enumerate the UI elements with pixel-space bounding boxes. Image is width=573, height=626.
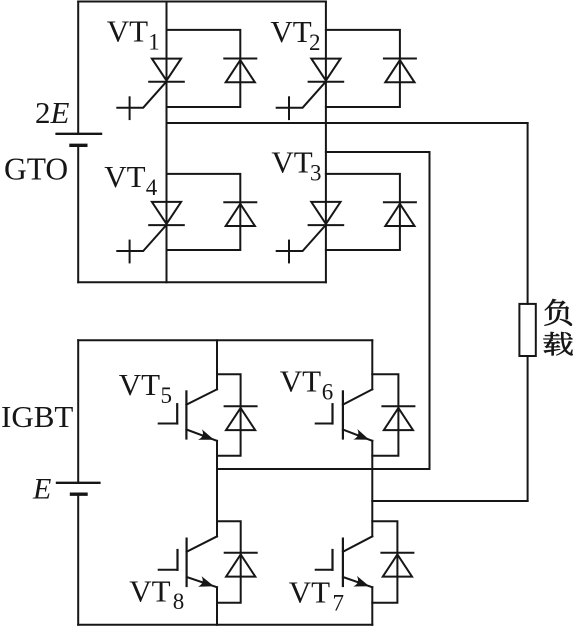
svg-text:1: 1: [148, 30, 160, 55]
wire diode loop around VT3: [326, 174, 400, 250]
wire top rail of IGBT bridge: [78, 339, 372, 341]
wire right leg segments of IGBT bridge: [371, 340, 373, 625]
svg-text:4: 4: [146, 175, 158, 200]
svg-text:2E: 2E: [35, 95, 70, 130]
diode of VT2 cell: [384, 59, 416, 83]
wire diode loop around VT8: [217, 521, 241, 603]
svg-text:VT: VT: [104, 159, 145, 194]
svg-text:IGBT: IGBT: [1, 399, 73, 434]
wire left branch upper (to battery E): [77, 340, 79, 483]
wire diode loop around VT1: [167, 30, 241, 107]
label 2E: [35, 95, 70, 130]
wire left leg segments of IGBT bridge: [216, 340, 218, 625]
label VT7: [289, 575, 344, 616]
svg-text:VT: VT: [129, 573, 170, 608]
diode of VT3 cell: [384, 202, 416, 226]
svg-text:VT: VT: [119, 367, 160, 402]
label GTO: [4, 152, 68, 187]
svg-text:3: 3: [310, 160, 322, 185]
wire top rail of GTO bridge: [78, 1, 326, 3]
thyristor VT2: [277, 59, 344, 120]
label VT6: [280, 364, 334, 405]
wire diode loop around VT5: [217, 374, 241, 456]
wire diode loop around VT6: [372, 374, 398, 456]
svg-text:7: 7: [333, 591, 345, 616]
diode of VT8 cell: [225, 553, 257, 577]
svg-text:VT: VT: [289, 575, 330, 610]
wire node A2 rail (to B1 link): [217, 468, 430, 470]
IGBT VT7: [316, 536, 373, 587]
battery E: [57, 483, 99, 494]
label VT8: [129, 573, 184, 614]
label VT1: [107, 14, 160, 55]
label VT5: [119, 367, 172, 408]
label VT4: [104, 159, 158, 200]
wire right leg of GTO bridge (VT2/VT3): [325, 2, 327, 283]
svg-text:GTO: GTO: [4, 152, 68, 187]
thyristor VT3: [277, 202, 344, 263]
wire node B2 rail (to load bottom): [372, 356, 527, 501]
wire left branch upper (to battery 2E): [77, 2, 79, 134]
load resistor (fuzai): [519, 304, 535, 356]
wire left leg of GTO bridge (VT1/VT4): [166, 2, 168, 283]
IGBT VT8: [159, 536, 217, 587]
wire diode loop around VT2: [326, 30, 400, 107]
svg-text:VT: VT: [271, 145, 312, 180]
label fuzai (load) text: [543, 299, 572, 355]
wire diode loop around VT7: [372, 521, 397, 603]
svg-text:6: 6: [322, 380, 334, 405]
wire bottom rail of GTO bridge: [78, 281, 326, 283]
wire diode loop around VT4: [167, 174, 241, 250]
thyristor VT4: [117, 202, 184, 263]
svg-text:VT: VT: [270, 14, 311, 49]
label VT3: [271, 145, 321, 186]
diode of VT6 cell: [382, 406, 414, 430]
diode of VT4 cell: [224, 202, 256, 226]
svg-text:2: 2: [309, 30, 321, 55]
svg-text:5: 5: [161, 383, 173, 408]
diode of VT5 cell: [225, 406, 257, 430]
label E: [32, 472, 51, 505]
IGBT VT6: [316, 389, 373, 441]
wire left branch lower (battery 2E to bottom rail): [77, 145, 79, 282]
label VT2: [270, 14, 320, 55]
wire node B1 to lower bridge link: [326, 152, 430, 469]
diode of VT1 cell: [224, 59, 256, 83]
wire bottom rail of IGBT bridge: [78, 624, 372, 626]
battery 2E: [57, 134, 101, 146]
svg-text:8: 8: [173, 589, 185, 614]
svg-text:VT: VT: [280, 364, 321, 399]
wire node A1 mid rail to load: [167, 123, 528, 304]
svg-text:VT: VT: [107, 14, 148, 49]
diode of VT7 cell: [381, 553, 413, 577]
svg-text:E: E: [32, 472, 51, 505]
IGBT VT5: [159, 389, 217, 441]
thyristor VT1: [117, 59, 184, 120]
wire left branch lower (battery E to bottom rail): [77, 494, 79, 625]
label IGBT: [1, 399, 73, 434]
